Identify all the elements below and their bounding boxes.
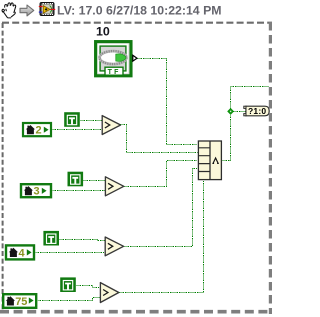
boolean to (1,0) conversion node ?1:0 — [244, 106, 269, 116]
wire from comparator 4 up into AND input 5 — [120, 181, 204, 293]
toolbar hand tool icon — [2, 3, 16, 18]
wire from comparator 3 to AND input 4 — [125, 169, 198, 247]
svg-text:?1:0: ?1:0 — [248, 106, 266, 116]
wire from local variable 3 to comparator 2 — [52, 190, 105, 192]
wire from T4 to comparator 4 — [77, 286, 100, 288]
label 10 — [96, 25, 110, 39]
compound arithmetic AND node — [198, 141, 221, 180]
structure frame top edge (dark dashed) — [2, 22, 272, 24]
svg-text:3: 3 — [34, 186, 40, 198]
wire from T1 to comparator 1 — [81, 120, 102, 122]
svg-text:10: 10 — [96, 25, 110, 39]
boolean constant T2 — [68, 172, 84, 187]
local variable 4 — [6, 245, 34, 259]
toolbar step/arrow icon — [20, 5, 34, 16]
comparator triangle 2 — [105, 177, 123, 196]
svg-text:TF: TF — [108, 69, 121, 76]
comparator triangle 1 — [102, 116, 120, 135]
structure frame bottom edge (thick gray dashed) — [0, 310, 272, 314]
boolean constant T1 — [64, 112, 80, 127]
structure frame right edge (thick gray dashed) — [269, 22, 272, 314]
local variable 3 — [21, 184, 51, 197]
wire from local variable 75 to comparator 4 — [37, 298, 100, 301]
comparator triangle 4 — [100, 283, 118, 303]
toolbar VI icon — [39, 3, 55, 16]
wire junction diamond — [227, 108, 234, 115]
wire from comparator 1 to AND input 2 — [121, 125, 198, 153]
boolean control TF terminal — [96, 42, 137, 76]
svg-text:75: 75 — [15, 296, 27, 308]
toolbar status text — [57, 4, 222, 18]
svg-text:LV: 17.0 6/27/18 10:22:14 PM: LV: 17.0 6/27/18 10:22:14 PM — [57, 4, 222, 18]
wire from TF control to AND input 1 — [138, 59, 198, 145]
svg-text:4: 4 — [19, 248, 26, 260]
wire from local variable 4 to comparator 3 — [35, 252, 105, 254]
wire branch from junction to conversion node — [234, 111, 246, 113]
local variable 2 — [23, 123, 51, 136]
wire from T2 to comparator 2 — [84, 180, 105, 182]
boolean constant T3 — [43, 231, 59, 246]
boolean constant T4 — [60, 277, 76, 292]
wire from T3 to comparator 3 — [60, 240, 105, 241]
local variable 75 — [3, 294, 36, 308]
comparator triangle 3 — [105, 237, 123, 256]
svg-text:2: 2 — [36, 124, 42, 136]
wire from comparator 2 to AND input 3 — [125, 161, 198, 187]
wire from AND output to frame edge — [223, 87, 269, 161]
structure frame left edge (dark dashed) — [2, 23, 4, 310]
wire from local variable 2 to comparator 1 — [52, 129, 102, 131]
